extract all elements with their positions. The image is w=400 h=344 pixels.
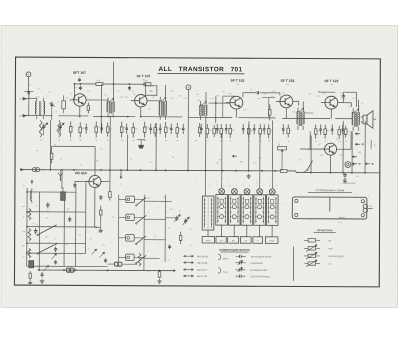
emitter drop T5 bbox=[330, 109, 332, 119]
stage rail seg5 bbox=[188, 116, 232, 118]
arrow marks osc bbox=[44, 253, 58, 271]
resistor R2 on rail bbox=[144, 80, 151, 86]
switch strip S2 bbox=[216, 188, 228, 225]
collector drop T6 bbox=[329, 155, 331, 172]
switch lever S3a bbox=[37, 225, 57, 236]
strip feed 1 bbox=[204, 171, 206, 196]
strip lead 1 bbox=[207, 230, 209, 236]
tuning gang C3 bbox=[57, 123, 65, 136]
driver transformer Tr4 bbox=[297, 101, 314, 130]
legend resistor row 4 bbox=[304, 260, 332, 267]
arrow marks right2 bbox=[355, 133, 376, 149]
transistor T7 OC614 bbox=[85, 175, 101, 187]
top supply rail bbox=[74, 83, 150, 85]
stage rail seg2 bbox=[58, 115, 88, 117]
connector jack J2 bbox=[66, 268, 74, 273]
resistor Rb21 bbox=[324, 125, 327, 139]
switch strip S4 bbox=[241, 189, 253, 226]
antenna input arrow 2 bbox=[20, 114, 37, 117]
resistor Rb20 bbox=[314, 125, 317, 139]
legend caps right bbox=[235, 255, 272, 279]
title ALL TRANSISTOR 701 bbox=[157, 66, 244, 74]
wire right block bottom bbox=[239, 222, 241, 224]
resistor Rb16 bbox=[247, 124, 250, 138]
strip feed 2 bbox=[221, 171, 223, 189]
main bus wire bbox=[20, 170, 380, 173]
cap C32 bbox=[46, 202, 49, 208]
IF transformer Tr1 bbox=[107, 62, 115, 118]
resistor Rb18 bbox=[267, 124, 270, 138]
wire stage1 drop bbox=[73, 84, 75, 100]
label SF T 152 a bbox=[230, 79, 244, 86]
osc vertical rail 4 bbox=[75, 187, 77, 266]
electrolytic cap C41 bbox=[29, 261, 34, 268]
switch strip S6 bbox=[266, 189, 278, 226]
switch bank SB1 bbox=[118, 196, 146, 264]
osc horiz wire 5 bbox=[27, 252, 86, 254]
strip feed 4 bbox=[259, 171, 261, 189]
resistor R34 bbox=[138, 253, 141, 267]
legend divider bbox=[292, 246, 294, 280]
osc vertical rail 6 bbox=[94, 188, 96, 228]
switch bank vertical 2 bbox=[143, 195, 145, 271]
antenna coil L1 bbox=[35, 98, 44, 120]
misc tiny labels bbox=[46, 90, 361, 242]
resistor Rb11 bbox=[198, 123, 201, 137]
resistor R21 bbox=[158, 271, 161, 279]
resistor Rb2 bbox=[79, 122, 82, 137]
wire OC614 stage bbox=[62, 170, 110, 189]
wire vertical drop 9 bbox=[271, 120, 273, 170]
osc horiz wire 4 bbox=[27, 242, 86, 244]
tuning gang C2 bbox=[40, 123, 48, 136]
osc horiz wire 1 bbox=[27, 191, 76, 193]
strip lead 4 bbox=[246, 225, 248, 237]
cap C37 bbox=[99, 195, 102, 200]
heading right block bbox=[308, 189, 352, 192]
emitter drop T2 bbox=[140, 107, 142, 117]
arrow into block bbox=[120, 170, 122, 179]
cap C6 bbox=[128, 86, 131, 90]
cap C35 bbox=[68, 217, 71, 222]
midblock labels bbox=[148, 198, 192, 253]
trimmer cap C38 bbox=[183, 217, 190, 225]
wire T5 collector bbox=[318, 92, 356, 107]
switch strip S3 bbox=[228, 189, 240, 226]
connector J1 bbox=[137, 140, 145, 149]
bottom bus wire bbox=[38, 269, 176, 272]
arrows osc bottom bbox=[92, 249, 105, 258]
trimmer cap C1 bbox=[49, 102, 55, 121]
resistor R29 bbox=[100, 206, 102, 220]
wire Tr3 to T3 base bbox=[209, 102, 230, 104]
output transformer Tr5 bbox=[352, 100, 360, 131]
switch bank cross wires bbox=[144, 201, 176, 258]
strip lead 3 bbox=[233, 225, 235, 237]
resistor Rb14 bbox=[220, 124, 223, 138]
wire T3 base vertical bbox=[215, 96, 217, 123]
emitter drop T3 bbox=[235, 109, 237, 118]
wire vertical drop 2 bbox=[109, 118, 111, 170]
label SF T 122 bbox=[324, 79, 338, 86]
cap C42 bbox=[40, 272, 44, 283]
switch lever S3b bbox=[37, 243, 58, 254]
transistor T1 SFT107 bbox=[70, 94, 86, 106]
transistor T3 SFT152 bbox=[226, 96, 243, 109]
battery B1 bbox=[345, 162, 355, 168]
osc horiz wire 6 bbox=[27, 265, 108, 267]
stage rail seg4 bbox=[140, 116, 182, 118]
wire T2 collector to Tr2 bbox=[147, 100, 160, 102]
arrow marks right bbox=[232, 155, 373, 165]
strip feed 6 bbox=[271, 171, 273, 189]
strip lead 2 bbox=[220, 225, 222, 237]
stage rail seg7 bbox=[282, 117, 330, 119]
resistor Rb4 bbox=[106, 123, 109, 137]
switch bank vertical 3 bbox=[164, 195, 166, 262]
resistor Rb12 bbox=[206, 124, 209, 138]
transistor T4 SFT152 bbox=[276, 95, 293, 108]
cap C36 bbox=[54, 247, 57, 252]
resistor Rb13 bbox=[213, 125, 216, 137]
osc right bits bbox=[95, 219, 103, 232]
resistor Rz2 bbox=[58, 120, 61, 137]
wire mid bias2 bbox=[262, 97, 275, 117]
misc tiny labels 3 bbox=[23, 178, 369, 274]
resistor R25 bbox=[28, 208, 31, 220]
antenna rod wire bbox=[24, 92, 33, 117]
wire vertical drop 11 bbox=[342, 121, 344, 173]
resistor R22 bbox=[50, 149, 53, 163]
transistor T5 SFT122 bbox=[321, 96, 338, 109]
resistor Rb22 bbox=[338, 126, 341, 139]
resistor R28 bbox=[179, 232, 181, 244]
emitter drop T4 bbox=[285, 108, 287, 119]
wire vertical drop 12 bbox=[351, 131, 353, 172]
label SFT 107 bbox=[73, 71, 86, 82]
wire drop partial bbox=[100, 84, 102, 132]
strip lead 5 bbox=[258, 225, 260, 237]
cap C4 bbox=[62, 95, 66, 113]
emitter drop T1 bbox=[79, 106, 81, 116]
cap forest row bbox=[85, 123, 344, 134]
resistor Rb23 bbox=[344, 126, 347, 138]
speaker LS1 bbox=[361, 111, 377, 129]
wire vertical drop 6 bbox=[221, 133, 223, 170]
wire vertical drop 13 bbox=[364, 121, 366, 173]
cap C33 bbox=[34, 228, 37, 234]
wire vertical drop 3 bbox=[127, 135, 129, 170]
heading kommutacia bbox=[220, 248, 251, 252]
resistor R35 bbox=[269, 104, 272, 120]
antenna input arrow 1 bbox=[20, 97, 37, 100]
tiny labels above right bbox=[342, 183, 356, 185]
wire mid bias bbox=[223, 96, 237, 117]
transistor T6 SFT122 bbox=[321, 143, 337, 155]
resistor R23 bbox=[109, 189, 112, 201]
misc tiny labels 2 bbox=[28, 84, 363, 168]
osc vertical rail 5 bbox=[85, 182, 87, 253]
resistor R33 bbox=[87, 102, 89, 113]
wire T5 to Tr5 bbox=[338, 103, 352, 107]
resistor value labels bbox=[72, 127, 349, 133]
resistor R27 bbox=[28, 248, 31, 258]
wire vertical drop 1 bbox=[49, 120, 51, 169]
ground sym 2 bbox=[157, 279, 161, 284]
electrolytic cap C40 bbox=[61, 187, 66, 200]
wire vertical drop 4 bbox=[155, 123, 157, 170]
cap C39 bbox=[168, 244, 171, 249]
wire T1 collector to Tr1 bbox=[86, 99, 108, 101]
osc vertical rail 3 bbox=[63, 192, 65, 266]
wire vertical drop 5 bbox=[205, 120, 207, 170]
resistor Rb15 bbox=[229, 124, 232, 138]
IF transformer Tr2 bbox=[145, 85, 166, 120]
resistor Rb9 bbox=[164, 122, 167, 138]
wire T6 base bbox=[300, 131, 325, 149]
osc vertical rail 2 bbox=[38, 192, 40, 270]
resistor Rb1 bbox=[69, 121, 72, 137]
osc horiz wire 3 bbox=[27, 226, 97, 228]
stage rail seg3 bbox=[93, 115, 135, 117]
wire T4 to Tr4 bbox=[293, 101, 299, 105]
strip top labels bbox=[203, 185, 276, 187]
resistor Rb7 bbox=[143, 122, 146, 138]
label SF T 107 bbox=[136, 74, 150, 81]
wire vertical drop 7 bbox=[248, 121, 250, 170]
bus connector left bbox=[20, 168, 46, 172]
resistor R26 bbox=[28, 228, 31, 241]
resistor R36 bbox=[28, 271, 32, 285]
resistor Rb8 bbox=[154, 124, 157, 137]
legend brace 1 bbox=[218, 254, 228, 260]
resistor Rb5 bbox=[120, 122, 123, 138]
resistor bottom value labels bbox=[40, 140, 348, 144]
osc vertical rail 1 bbox=[26, 188, 28, 266]
resistor Rb10 bbox=[176, 123, 179, 138]
wire output stage bbox=[337, 131, 351, 149]
jack plug Y bbox=[58, 170, 63, 181]
wire vertical drop 8 bbox=[259, 133, 261, 170]
stage rail seg8 bbox=[335, 118, 352, 120]
switch strip S1 bbox=[202, 196, 214, 230]
node B terminal bbox=[26, 72, 40, 98]
wire y147 link bbox=[51, 146, 95, 175]
transistor T2 SFT107 bbox=[131, 94, 147, 106]
resistor Rb3 bbox=[95, 121, 98, 137]
legend resistor row 1 bbox=[304, 239, 332, 243]
schematic border frame bbox=[14, 57, 380, 287]
coupling cap C17 bbox=[243, 91, 280, 97]
node A terminal bbox=[186, 85, 191, 171]
ground sym 1 bbox=[246, 174, 250, 179]
wire vertical drop 10 bbox=[310, 136, 312, 173]
IF transformer Tr3 bbox=[199, 92, 207, 120]
legend resistor row 3 bbox=[304, 252, 345, 259]
resistor Rb19 bbox=[287, 124, 290, 137]
cap C31 bbox=[73, 183, 76, 188]
resistor Rz1 bbox=[39, 120, 42, 137]
legend arrows left bbox=[183, 255, 209, 278]
heading resistors bbox=[314, 229, 336, 232]
resistor R20 inline bbox=[280, 169, 287, 172]
resistor R1 on rail bbox=[96, 80, 103, 86]
osc coil L2 bbox=[31, 180, 33, 203]
stage rail seg1 bbox=[33, 115, 52, 117]
cap C30 bbox=[343, 173, 346, 184]
connector jack J3 bbox=[114, 262, 122, 266]
strip lead 6 bbox=[271, 225, 273, 237]
switch key boxes bbox=[202, 237, 278, 244]
legend resistor row 2 bbox=[304, 245, 334, 252]
label OC 614 bbox=[75, 171, 87, 175]
cap C5 bbox=[79, 86, 82, 90]
stage rail seg6 bbox=[238, 117, 275, 119]
osc horiz wire 2 bbox=[27, 211, 86, 213]
chassis block bbox=[292, 197, 373, 219]
trimmer cap C34 bbox=[174, 214, 181, 222]
switch bank vertical 1 bbox=[117, 195, 119, 262]
switch S2 lever bbox=[303, 161, 313, 173]
volume pot P1 bbox=[278, 144, 287, 171]
label SF T 152 b bbox=[280, 79, 294, 86]
osc labels bbox=[22, 206, 105, 250]
legend brace 2 bbox=[218, 267, 228, 273]
resistor Rb6 bbox=[132, 123, 135, 138]
switch strip S5 bbox=[254, 189, 266, 226]
wire J3 bbox=[104, 258, 138, 264]
resistor Rb17 bbox=[259, 124, 262, 138]
